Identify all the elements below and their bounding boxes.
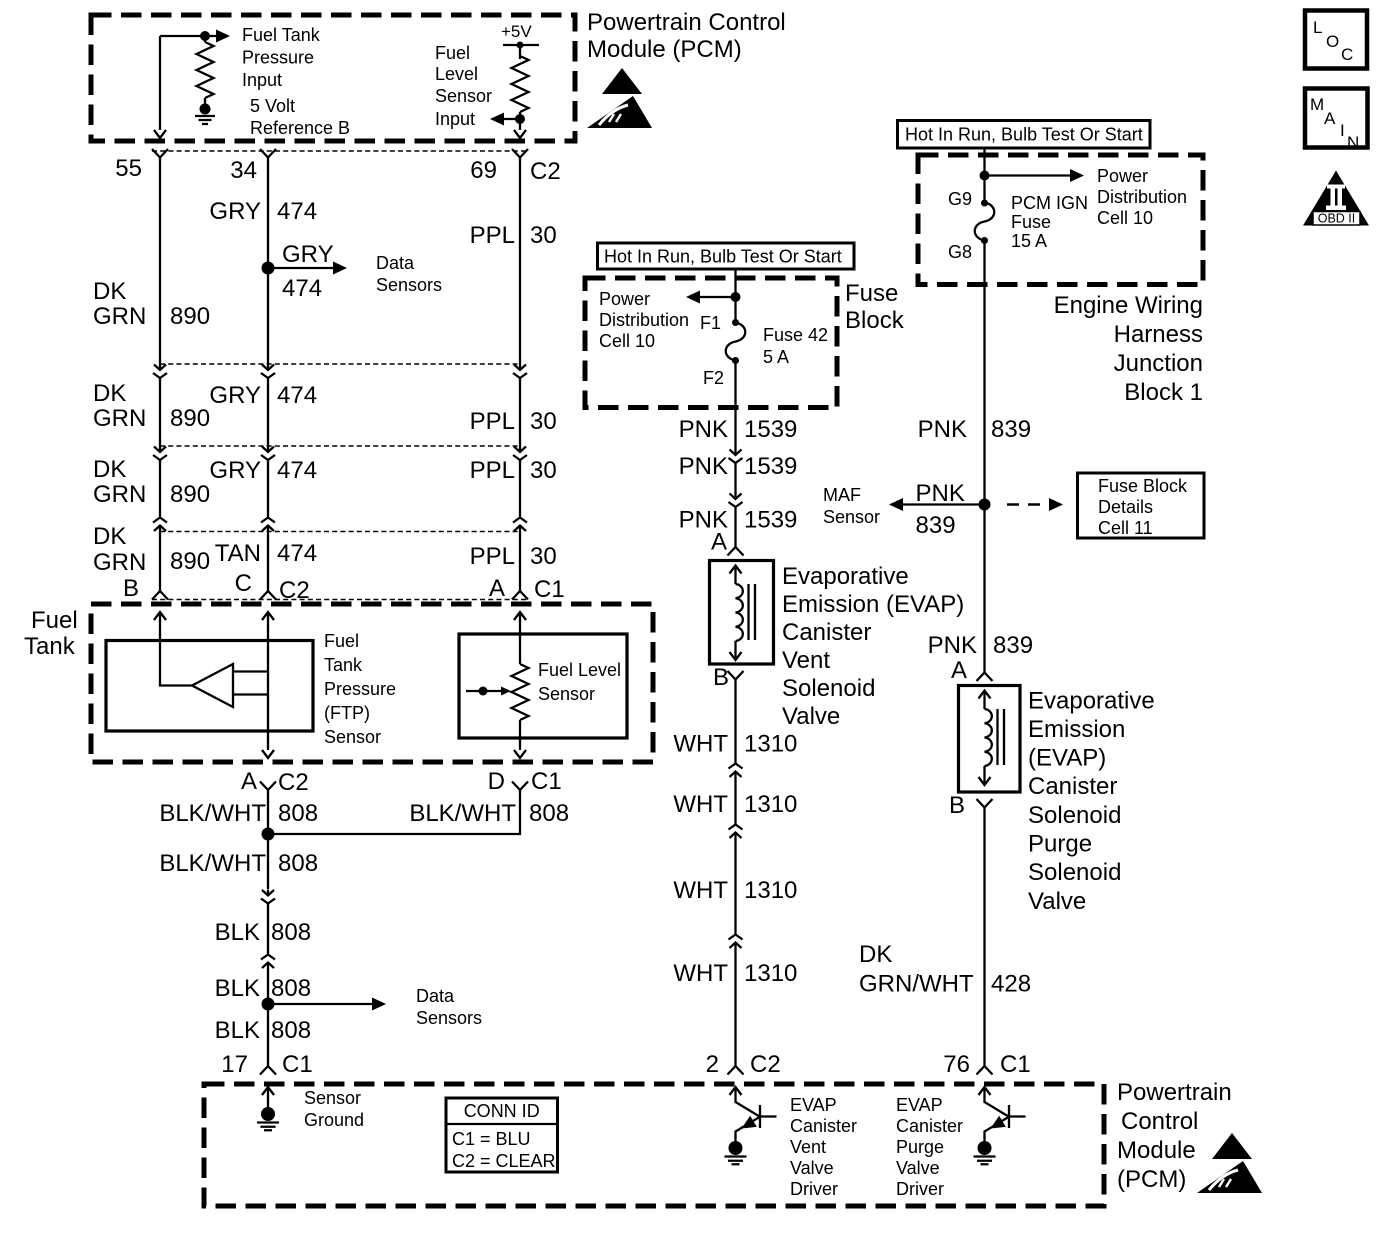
svg-text:890: 890 [170,481,210,508]
svg-text:Purge: Purge [1028,831,1092,858]
svg-text:1539: 1539 [744,507,797,534]
inline connector 1310 (3) [729,935,743,949]
svg-text:Solenoid: Solenoid [782,675,875,702]
svg-text:DK: DK [859,941,892,968]
svg-text:G8: G8 [948,242,972,262]
pin 34 [230,149,276,184]
label PNK 839 (maf) [916,480,965,539]
svg-text:1310: 1310 [744,877,797,904]
fuel level resistor [512,664,529,720]
svg-text:808: 808 [271,919,311,946]
header Hot In Run (middle) [598,243,855,269]
label Fuel Level Sensor Input [435,43,492,129]
label BLK/WHT 808 (right) [409,800,569,827]
wire A into tank (fuel level) [514,612,526,664]
svg-text:EVAP: EVAP [896,1095,943,1115]
svg-text:GRN: GRN [93,481,146,508]
wire PNK 1539 seg1 [734,361,736,450]
label PNK 1539 (3) [679,507,798,534]
ground (purge driver) [974,1141,996,1164]
fuel level wiper [466,687,511,696]
pin 69 / C2 [470,149,560,185]
svg-text:GRN: GRN [93,405,146,432]
svg-text:A: A [241,768,257,795]
ESD symbol (bottom) [1197,1133,1262,1193]
harness connector line above fuel tank [152,599,528,601]
Fuel Tank dashed box [91,604,653,762]
vent driver transistor [730,1087,777,1141]
wire PNK 1539 seg3 [734,507,736,547]
svg-text:Pressure: Pressure [242,48,314,68]
svg-text:C1: C1 [1000,1051,1031,1078]
svg-text:Junction: Junction [1114,350,1203,377]
svg-text:839: 839 [993,632,1033,659]
svg-text:MAF: MAF [823,485,861,505]
svg-text:GRY: GRY [209,198,261,225]
arrow to Fuel Tank Pressure Input [205,30,230,43]
svg-text:474: 474 [277,540,317,567]
svg-text:WHT: WHT [673,960,728,987]
svg-text:428: 428 [991,971,1031,998]
svg-text:Cell 11: Cell 11 [1098,518,1153,538]
svg-text:1310: 1310 [744,791,797,818]
svg-text:Pressure: Pressure [324,679,396,699]
svg-text:GRY: GRY [209,457,261,484]
Fuse Block Details Cell 11 box [1078,473,1205,538]
EVAP purge solenoid valve box [959,686,1021,793]
label WHT 1310 (2) [673,791,797,818]
svg-text:17: 17 [221,1051,248,1078]
wire 808 down [267,834,269,889]
arrow GRY to data sensors [268,241,347,302]
svg-text:Canister: Canister [790,1116,857,1136]
wire 55 exits PCM [154,36,166,138]
fuse 42 [726,319,746,364]
svg-text:PNK: PNK [679,453,728,480]
svg-text:890: 890 [170,548,210,575]
pin 76 / C1 [943,1051,1030,1078]
FTP output taps [233,672,268,695]
wire C2-A down [267,790,269,834]
label WHT 1310 (4) [673,960,797,987]
svg-text:Valve: Valve [790,1158,834,1178]
arrow 839 to MAF sensor [889,498,985,511]
wire DK GRN 890 seg0 [159,158,161,365]
label DK GRN 890 (row1) [93,380,210,432]
svg-text:Vent: Vent [782,647,830,674]
svg-text:Sensor: Sensor [538,684,595,704]
svg-text:Sensors: Sensors [416,1008,482,1028]
label MAF Sensor [823,485,880,527]
svg-text:C: C [1341,45,1353,64]
label Power Distribution Cell 10 (middle) [599,289,689,351]
resistor R-ftp (5 Volt pull) [197,36,214,104]
svg-text:Valve: Valve [896,1158,940,1178]
label PNK 839 (2) [928,632,1033,659]
svg-text:A: A [1324,109,1336,128]
svg-text:(PCM): (PCM) [1117,1166,1186,1193]
svg-text:Sensor: Sensor [823,507,880,527]
PCM (bottom) dashed box [204,1084,1104,1206]
wire WHT 1310 seg1 [734,680,736,764]
label Data Sensors (bottom) [416,986,482,1028]
svg-text:C: C [235,570,252,597]
svg-text:EVAP: EVAP [790,1095,837,1115]
svg-text:Driver: Driver [790,1179,838,1199]
label GRY 474 (row2) [209,457,317,484]
svg-text:DK: DK [93,523,126,550]
svg-text:M: M [1310,95,1324,114]
arrow to Fuel Level Sensor Input [490,113,520,126]
wire TAN 474 seg3 [267,532,269,592]
wire PNK 1539 seg2 [734,463,736,493]
svg-text:Fuel Tank: Fuel Tank [242,25,321,45]
svg-text:1539: 1539 [744,453,797,480]
svg-text:Fuse Block: Fuse Block [1098,476,1188,496]
svg-text:L: L [1313,18,1322,37]
svg-text:Driver: Driver [896,1179,944,1199]
svg-text:808: 808 [278,850,318,877]
resistor R-fls (fuel level pull) [512,45,529,119]
wire C1-D down and across [268,790,520,834]
svg-text:PPL: PPL [470,222,515,249]
inline connector line C [160,531,520,533]
wire GRY 474 seg1 [267,378,269,446]
FTP sensor rect [106,641,313,732]
svg-text:1539: 1539 [744,416,797,443]
label DK GRN 890 (row2) [93,456,210,508]
label WHT 1310 (1) [673,731,797,758]
LOC icon [1305,11,1367,69]
purge driver transistor [979,1087,1026,1141]
svg-text:+5V: +5V [501,22,532,41]
label Power Distribution Cell 10 (right) [1097,166,1187,228]
wire GRY 474 seg2 [267,460,269,518]
svg-text:BLK/WHT: BLK/WHT [159,800,266,827]
svg-text:PNK: PNK [918,416,967,443]
dashed arrow to fuse block details [1007,498,1063,511]
svg-text:PPL: PPL [470,543,515,570]
PCM (top) dashed box [91,15,575,141]
svg-text:BLK/WHT: BLK/WHT [159,850,266,877]
label PPL 30 (row3) [470,543,557,570]
label DK GRN 890 (row0) [93,278,210,330]
svg-text:PNK: PNK [928,632,977,659]
svg-text:55: 55 [115,155,142,182]
svg-text:30: 30 [530,408,557,435]
wire DK GRN 890 seg2 [159,460,161,518]
svg-text:Fuel: Fuel [31,607,78,634]
svg-text:Module: Module [1117,1137,1196,1164]
svg-text:GRN: GRN [93,303,146,330]
svg-text:Input: Input [242,70,282,90]
svg-text:808: 808 [271,1017,311,1044]
label Fuel Tank Pressure (FTP) Sensor [324,631,396,747]
wire into fuse block [734,269,736,323]
wire into junction block [983,148,985,203]
wire GRY 474 seg0b [267,268,269,364]
label PCM IGN Fuse 15 A [1011,193,1088,251]
svg-text:DK: DK [93,456,126,483]
svg-text:C1: C1 [531,768,562,795]
svg-text:DK: DK [93,380,126,407]
header Hot In Run (right) [898,121,1151,149]
inline connector line A [160,363,520,365]
svg-text:Data: Data [376,253,415,273]
wire 808 seg [267,904,269,955]
label Data Sensors (top) [376,253,442,295]
svg-text:Valve: Valve [782,703,840,730]
svg-text:Engine Wiring: Engine Wiring [1054,292,1203,319]
inline connector 1539 (2) [729,493,743,507]
ground (vent driver) [725,1141,747,1164]
label EVAP Canister Purge Valve Driver [896,1095,963,1199]
label DK GRN/WHT 428 [859,941,1031,998]
sensor ground wire arrow [262,1087,274,1107]
wire PPL 30 seg3 [519,532,521,592]
svg-text:GRY: GRY [209,382,261,409]
svg-text:GRY: GRY [282,241,334,268]
svg-text:BLK: BLK [215,919,260,946]
svg-text:5 Volt: 5 Volt [250,96,295,116]
svg-text:Powertrain: Powertrain [1117,1079,1232,1106]
label DK GRN 890 (row3) [93,523,210,576]
label PPL 30 (row0) [470,222,557,249]
svg-text:GRN/WHT: GRN/WHT [859,971,974,998]
label GRY 474 (row0) [209,198,317,225]
CONN ID table [446,1098,558,1172]
label TAN 474 (row3) [215,540,317,567]
svg-text:Purge: Purge [896,1137,944,1157]
pin A (purge solenoid) [951,657,993,684]
svg-text:Fuse: Fuse [845,280,898,307]
svg-text:Tank: Tank [324,655,363,675]
svg-text:30: 30 [530,457,557,484]
svg-text:Cell 10: Cell 10 [599,331,655,351]
svg-text:Vent: Vent [790,1137,826,1157]
svg-text:Fuse 42: Fuse 42 [763,325,828,345]
FTP amplifier triangle [192,664,233,707]
pin 17 / C1 [221,1051,312,1078]
svg-text:C1: C1 [282,1051,313,1078]
svg-text:Power: Power [1097,166,1148,186]
wire DK GRN 890 seg1 [159,378,161,446]
label Evaporative Emission (EVAP) Canister Solenoid Purge Solenoid Valve [1028,688,1155,916]
svg-text:WHT: WHT [673,731,728,758]
+5V supply [501,22,539,49]
svg-text:2: 2 [706,1051,719,1078]
label PNK 1539 (2) [679,453,798,480]
svg-text:BLK: BLK [215,1017,260,1044]
pin A / C1 (tank top) [489,575,565,603]
svg-text:474: 474 [277,382,317,409]
wire WHT 1310 seg4 [734,949,736,1067]
arrow to power distribution (middle) [686,291,736,304]
MAIN icon [1305,89,1368,153]
svg-text:A: A [489,575,505,602]
inline connector line B [160,445,520,447]
svg-text:Sensor: Sensor [324,727,381,747]
svg-text:69: 69 [470,157,497,184]
svg-text:BLK: BLK [215,975,260,1002]
pin D / C1 (below tank) [488,768,562,795]
svg-text:D: D [488,768,505,795]
wire PNK 839 seg2 [983,505,985,665]
ground (sensor ground) [257,1107,279,1130]
inline connector 1310 (1) [729,764,743,778]
svg-text:Fuel: Fuel [324,631,359,651]
pin B (vent solenoid) [713,664,744,691]
junction node on 5V ref [200,31,210,41]
svg-text:Emission: Emission [1028,716,1125,743]
svg-text:Fuse: Fuse [1011,212,1051,232]
label BLK 808 (2) [215,975,311,1002]
svg-text:474: 474 [277,198,317,225]
svg-text:Cell 10: Cell 10 [1097,208,1153,228]
label BLK/WHT 808 (left) [159,800,318,827]
connector A wire1 [153,364,167,378]
junction node (fuse feed) [731,292,741,302]
ground (in PCM top) [195,104,215,125]
svg-text:474: 474 [282,275,322,302]
label Evaporative Emission (EVAP) Canister Vent Solenoid Valve [782,563,964,730]
svg-text:Sensor: Sensor [304,1088,361,1108]
wire 808 seg2 [267,969,269,1067]
svg-text:BLK/WHT: BLK/WHT [409,800,516,827]
svg-text:Block: Block [845,307,905,334]
wire PNK 839 seg1 [983,241,985,505]
svg-text:C2: C2 [750,1051,781,1078]
svg-text:Evaporative: Evaporative [1028,688,1155,715]
connector line below PCM [152,150,528,152]
connector B wire2 [261,446,275,460]
svg-text:C1: C1 [534,576,565,603]
label 5 Volt Reference B [250,96,350,138]
svg-text:Distribution: Distribution [1097,187,1187,207]
engine junction block dashed box [918,155,1203,285]
pin C / C2 [235,570,310,604]
svg-text:Solenoid: Solenoid [1028,859,1121,886]
wire PPL 30 seg0 [519,158,521,365]
svg-text:Hot In Run, Bulb Test Or Start: Hot In Run, Bulb Test Or Start [604,247,842,267]
svg-text:TAN: TAN [215,540,261,567]
svg-text:A: A [711,529,727,556]
wire PPL 30 seg1 [519,378,521,446]
svg-text:30: 30 [530,543,557,570]
wire DK GRN 890 seg3 [159,532,161,592]
svg-text:808: 808 [278,800,318,827]
PCM top label [587,9,786,63]
label BLK 808 (3) [215,1017,311,1044]
svg-text:Data: Data [416,986,455,1006]
wire WHT 1310 seg2 [734,778,736,825]
svg-text:Sensors: Sensors [376,275,442,295]
connector A wire2 [261,364,275,378]
svg-text:A: A [951,657,967,684]
label Fuse 42 5 A [763,325,828,367]
junction node fuel level [515,114,525,124]
label Sensor Ground [304,1088,364,1130]
wire B into tank [154,612,192,686]
label BLK/WHT 808 (below splice) [159,850,318,877]
svg-text:Power: Power [599,289,650,309]
svg-text:WHT: WHT [673,791,728,818]
svg-text:PCM IGN: PCM IGN [1011,193,1088,213]
svg-text:808: 808 [271,975,311,1002]
label GRY 474 (row1) [209,382,317,409]
label Fuel Tank [24,607,78,660]
label EVAP Canister Vent Valve Driver [790,1095,857,1199]
svg-text:Powertrain Control: Powertrain Control [587,9,786,36]
svg-text:Distribution: Distribution [599,310,689,330]
label Fuel Tank Pressure Input [242,25,321,90]
svg-text:PPL: PPL [470,457,515,484]
svg-text:5 A: 5 A [763,347,789,367]
svg-text:Sensor: Sensor [435,86,492,106]
arrow 808 to data sensors [268,998,386,1011]
svg-text:B: B [949,792,965,819]
svg-text:Module (PCM): Module (PCM) [587,36,742,63]
pin A / C2 (below tank) [241,768,309,796]
svg-text:34: 34 [230,157,257,184]
svg-text:Canister: Canister [896,1116,963,1136]
inline connector 808 (down) [261,890,275,904]
connector C wire1 [153,518,167,532]
PCM IGN fuse [975,200,995,245]
wire C into tank [262,612,274,758]
svg-text:GRN: GRN [93,549,146,576]
pin B [123,575,168,602]
vent solenoid coil [730,566,756,661]
svg-text:WHT: WHT [673,877,728,904]
svg-text:PPL: PPL [470,408,515,435]
svg-text:DK: DK [93,278,126,305]
svg-text:Evaporative: Evaporative [782,563,909,590]
junction node 808 splice [262,828,275,841]
svg-text:PNK: PNK [679,416,728,443]
svg-text:Harness: Harness [1114,321,1203,348]
inline connector 1310 (2) [729,825,743,839]
label PPL 30 (row1) [470,408,557,435]
svg-text:B: B [123,575,139,602]
wire GRY 474 seg0a [267,158,269,269]
label PPL 30 (row2) [470,457,557,484]
ESD symbol (top) [587,68,652,128]
svg-text:890: 890 [170,405,210,432]
svg-text:839: 839 [916,512,956,539]
wire 69 exits PCM [514,119,526,138]
connector B wire1 [153,446,167,460]
svg-text:(FTP): (FTP) [324,703,370,723]
EVAP vent solenoid valve box [710,561,774,665]
svg-text:C2: C2 [530,158,561,185]
svg-text:C2 = CLEAR: C2 = CLEAR [452,1151,556,1171]
connector C wire2 [261,518,275,532]
svg-text:Reference B: Reference B [250,118,350,138]
junction node (ign feed) [980,171,990,181]
svg-text:Solenoid: Solenoid [1028,802,1121,829]
svg-text:Tank: Tank [24,633,76,660]
Fuel Level Sensor rect [459,634,627,738]
svg-text:C1 = BLU: C1 = BLU [452,1129,531,1149]
svg-text:PNK: PNK [916,480,965,507]
svg-text:Canister: Canister [782,619,871,646]
svg-text:O: O [1326,32,1339,51]
svg-text:Input: Input [435,109,475,129]
OBD II icon [1303,171,1369,226]
svg-text:B: B [713,664,729,691]
svg-text:N: N [1347,133,1359,152]
